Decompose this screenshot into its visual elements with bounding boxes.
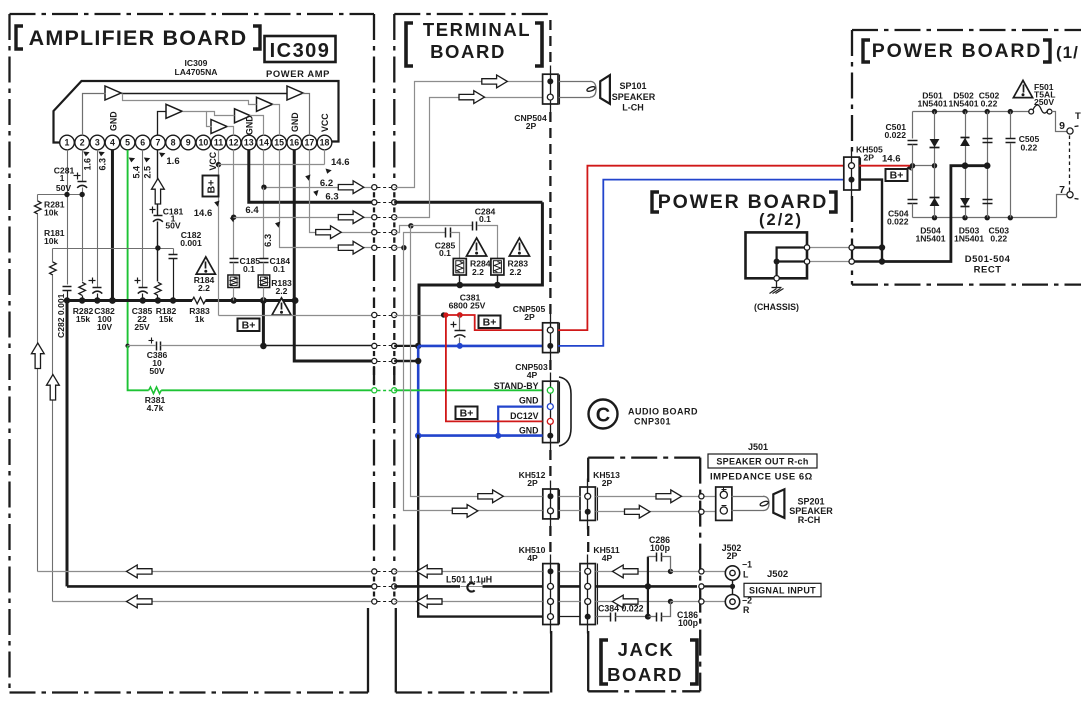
wire speaker R+ row (411, 226, 716, 499)
label 14.6 near B+ (194, 200, 220, 219)
svg-text:0.22: 0.22 (981, 99, 998, 109)
connector KH510 (519, 545, 560, 634)
op-amp A3 (211, 120, 227, 134)
pin 11 (211, 135, 226, 150)
svg-text:R-CH: R-CH (798, 515, 821, 525)
wire B+ middle stub (910, 163, 937, 168)
pin 7 (151, 135, 166, 150)
svg-text:(CHASSIS): (CHASSIS) (754, 302, 799, 312)
svg-text:J502: J502 (767, 569, 788, 580)
arrow row A terminal side left (417, 565, 443, 578)
svg-text:1.6: 1.6 (83, 158, 93, 171)
jack board border (588, 458, 700, 692)
svg-text:POWER AMP: POWER AMP (266, 68, 330, 79)
wire VCC row pin11 to pin18 (219, 164, 325, 166)
svg-text:GND: GND (109, 111, 119, 131)
svg-text:2.2: 2.2 (472, 267, 484, 277)
svg-text:GND: GND (244, 115, 254, 135)
resistor R383 (189, 297, 210, 324)
thick wire bus drop to C386 node (262, 301, 265, 346)
svg-text:VCC: VCC (208, 151, 218, 170)
wire red B+ CNP505 to KH505 (558, 166, 844, 330)
svg-text:JACK: JACK (618, 639, 675, 660)
bracket arc right of CNP503 (559, 377, 571, 446)
capacitor C503 (983, 166, 993, 218)
wire A6 out to pin17 (303, 94, 310, 136)
pin 16 (287, 135, 302, 150)
terminal 7 (1057, 184, 1074, 218)
svg-text:2P: 2P (727, 551, 738, 561)
pin 3 (90, 135, 105, 150)
svg-text:6.4: 6.4 (245, 205, 259, 216)
wire row8 GND thick (372, 358, 422, 364)
IC309 ref label (175, 58, 218, 77)
capacitor C184 (260, 188, 291, 276)
svg-text:14.6: 14.6 (882, 154, 901, 165)
SP101 label (612, 81, 656, 113)
svg-text:0.001: 0.001 (180, 238, 202, 248)
svg-text:14: 14 (259, 138, 269, 148)
wire row D / capacitor C384 (559, 604, 651, 622)
svg-text:(1/: (1/ (1056, 43, 1079, 62)
R184 label (194, 275, 215, 293)
svg-text:9: 9 (186, 138, 191, 148)
svg-text:8: 8 (171, 138, 176, 148)
svg-text:0.1: 0.1 (479, 214, 491, 224)
capacitor C502 (983, 112, 993, 166)
wire CNP504 to speaker (559, 81, 597, 97)
pin 4 (105, 135, 120, 150)
wire pin3 down / capacitor C382 (89, 150, 115, 333)
svg-text:4.7k: 4.7k (147, 403, 164, 413)
wire A4 out to pin14 (250, 116, 264, 136)
pin 5 (120, 135, 135, 150)
arrow speaker R- right (625, 505, 651, 518)
svg-text:DC12V: DC12V (510, 411, 538, 421)
svg-text:15k: 15k (159, 314, 174, 324)
svg-text:1: 1 (60, 173, 65, 183)
rectifier labels top (917, 91, 999, 109)
capacitor C186 (648, 602, 699, 629)
svg-text:6.2: 6.2 (320, 178, 333, 189)
svg-text:2: 2 (80, 138, 85, 148)
outline arrow up on pin7 line (152, 179, 165, 205)
capacitor C505 (1005, 112, 1040, 218)
pin 14 (257, 135, 272, 150)
speaker SP101 (586, 75, 610, 104)
wire pin12 down with 6.4 node (231, 150, 236, 259)
svg-text:14.6: 14.6 (331, 157, 350, 168)
svg-text:6.3: 6.3 (98, 158, 108, 171)
fusible resistor R184 (228, 275, 240, 301)
svg-text:SIGNAL INPUT: SIGNAL INPUT (749, 586, 816, 596)
svg-text:50V: 50V (56, 183, 72, 193)
wire blue bus row to CNP503 pin4 (415, 432, 543, 438)
svg-text:2.5: 2.5 (143, 166, 153, 179)
svg-text:2.2: 2.2 (276, 286, 288, 296)
svg-text:(2/2): (2/2) (759, 211, 803, 229)
svg-text:6.3: 6.3 (263, 234, 274, 247)
B+ boxed label power (886, 169, 908, 182)
svg-text:AUDIO BOARD: AUDIO BOARD (628, 407, 698, 417)
svg-text:LA4705NA: LA4705NA (175, 67, 218, 77)
pin 17 (302, 135, 317, 150)
wire pin11 VCC node (208, 150, 221, 171)
wire A2 out to A4 in (207, 112, 235, 116)
svg-text:15: 15 (274, 138, 284, 148)
warning triangle R284 (467, 238, 487, 256)
wire blue vertical (417, 346, 420, 436)
pin 2 (75, 135, 90, 150)
svg-text:10: 10 (198, 138, 208, 148)
svg-text:IC309: IC309 (270, 40, 331, 62)
fusible resistor R183 (258, 275, 270, 301)
svg-text:14.6: 14.6 (194, 208, 213, 219)
wire pin2 down / capacitor C281 (74, 150, 88, 282)
wire signal row C (53, 599, 726, 604)
svg-text:11: 11 (214, 138, 223, 148)
wire signal GND row B thick (67, 584, 732, 589)
arrow speaker R- left (452, 505, 478, 518)
warning triangle R283 (509, 238, 529, 256)
svg-text:STAND-BY: STAND-BY (494, 381, 539, 391)
outline arrow up on left wire (31, 343, 44, 369)
op-amp A5 (257, 97, 273, 111)
arrow row3 terminal side (459, 91, 485, 104)
svg-text:C: C (596, 405, 610, 427)
svg-text:CNP301: CNP301 (634, 417, 671, 427)
arrow row C terminal side left (417, 595, 443, 608)
wire pin6 down / capacitor C385 (132, 150, 153, 333)
pin 13 (242, 135, 257, 150)
B+ boxed label on bus (238, 319, 260, 332)
arrow speaker R+ right (656, 490, 682, 503)
jack board title (601, 639, 697, 685)
arrow speaker R+ left (478, 490, 504, 503)
svg-text:B+: B+ (460, 408, 474, 420)
wire left feedback L down to row A (37, 215, 39, 572)
warning triangle R183 (272, 298, 291, 315)
pin 10 (196, 135, 211, 150)
svg-text:2P: 2P (524, 312, 535, 322)
power board 1/2 title (863, 40, 1079, 62)
wire A3 out to pin12 (228, 127, 234, 136)
wire pin7 to A2 (158, 112, 167, 136)
wire pin16 GND thick down and right (294, 150, 374, 361)
svg-text:2P: 2P (526, 121, 537, 131)
warning triangle F501 (1013, 80, 1032, 97)
svg-text:6800 25V: 6800 25V (449, 301, 486, 311)
capacitor C282 (56, 287, 72, 339)
arrow row C amp side left (127, 595, 153, 608)
svg-text:1N5401: 1N5401 (917, 99, 947, 109)
thick GND loop terminal board (419, 202, 542, 346)
wire red B+ to CNP505 (444, 315, 543, 330)
audio board C mark (589, 400, 618, 429)
connector CNP503 (515, 362, 559, 452)
CNP503 pin name labels (494, 381, 539, 436)
B+ boxed label CNP503 (456, 407, 478, 420)
svg-text:1k: 1k (195, 314, 205, 324)
svg-text:J501: J501 (748, 442, 768, 452)
svg-text:18: 18 (320, 138, 330, 148)
transformer dashes (1070, 111, 1081, 200)
wire chassis row 2 (804, 259, 882, 264)
wire blue GND bus to CNP505 (418, 343, 542, 349)
svg-text:15k: 15k (76, 314, 91, 324)
svg-text:L-CH: L-CH (622, 103, 644, 113)
voltage labels pins 2,3,5,6,7 (83, 152, 180, 179)
power board 1/2 border (852, 30, 1081, 285)
svg-text:B+: B+ (242, 320, 256, 332)
svg-text:6.3: 6.3 (325, 192, 338, 203)
capacitor C185 (230, 256, 261, 276)
svg-text:BOARD: BOARD (607, 664, 683, 685)
svg-text:100p: 100p (678, 618, 699, 628)
chassis box (746, 232, 808, 278)
svg-text:5: 5 (125, 138, 130, 148)
svg-text:4P: 4P (602, 553, 613, 563)
svg-text:POWER BOARD: POWER BOARD (658, 191, 828, 213)
capacitor C381 (449, 293, 486, 346)
svg-text:7: 7 (155, 138, 160, 148)
svg-text:2P: 2P (864, 153, 875, 163)
svg-text:GND: GND (519, 396, 539, 406)
terminal 9 (1059, 120, 1073, 134)
svg-text:GND: GND (290, 112, 300, 132)
chassis inner wires (774, 248, 807, 281)
svg-text:SP201: SP201 (797, 497, 824, 507)
fuse F501 (1029, 105, 1052, 114)
wire row2 GND thick into terminal (372, 200, 543, 205)
svg-text:VCC: VCC (320, 113, 330, 132)
capacitor C284 (408, 207, 497, 259)
op-amp A1 (105, 86, 121, 100)
RCA jack J502 L (725, 560, 752, 581)
diode D502 (960, 112, 970, 166)
wire pin1 down (67, 150, 69, 285)
wire fuse to terminal 9 (1052, 112, 1067, 132)
wire left feedback R down to row C (52, 276, 54, 602)
SIGNAL INPUT boxed (744, 583, 821, 597)
wire blue GND CNP505 to KH505 (558, 180, 844, 346)
svg-text:2P: 2P (602, 478, 613, 488)
label 14.6 at pin18 (325, 157, 350, 174)
svg-text:2P: 2P (527, 478, 538, 488)
svg-text:13: 13 (244, 138, 254, 148)
AUDIO BOARD label (628, 407, 698, 427)
F501 label (1034, 82, 1055, 107)
arrow row4 amp side (316, 226, 342, 239)
svg-text:17: 17 (305, 138, 315, 148)
wire J501 to speaker (732, 496, 770, 510)
capacitor C504 (887, 166, 918, 227)
diode D501 (930, 112, 940, 166)
arrow row3 amp side (338, 211, 364, 224)
pin 15 (272, 135, 287, 150)
wire A5 out to pin15 (273, 105, 280, 136)
pin 12 (226, 135, 241, 150)
B+ boxed label rotated (203, 176, 219, 197)
14.6 label power (882, 154, 912, 172)
amplifier board title (16, 26, 260, 50)
C181 label (163, 207, 184, 231)
wire black GND vertical to KH510 pin4 (418, 435, 543, 617)
wire A1 out to A5 in (123, 94, 257, 105)
svg-text:R: R (743, 605, 750, 615)
wire KH505 pin2 down (859, 180, 885, 265)
wire pin13 GND thick to terminal (249, 150, 374, 203)
wire row5 to C285 node (372, 245, 407, 250)
jack ground link (730, 581, 735, 595)
svg-text:0.022: 0.022 (887, 217, 909, 227)
C281 label (54, 166, 75, 194)
svg-text:B+: B+ (206, 180, 218, 194)
border dashes between connector rows (374, 192, 394, 596)
svg-text:100p: 100p (650, 543, 671, 553)
arrow row1 amp side (338, 181, 364, 194)
svg-text:D501-504: D501-504 (965, 254, 1011, 265)
capacitor C285 (404, 228, 460, 259)
RCA jack J502 R (725, 595, 752, 616)
svg-text:C384 0.022: C384 0.022 (598, 604, 644, 614)
svg-text:6: 6 (140, 138, 145, 148)
chassis ground (770, 282, 784, 294)
svg-text:10V: 10V (97, 322, 113, 332)
svg-text:0.22: 0.22 (990, 234, 1007, 244)
connector KH512 (519, 470, 560, 528)
wire pin7 down / capacitor C181 (150, 150, 163, 282)
arrow row1 terminal side (482, 75, 508, 88)
wire pin14 down to row1 (264, 150, 375, 188)
wire pin5 green stand-by down (127, 150, 129, 346)
svg-text:10k: 10k (44, 208, 59, 218)
connector KH513 (580, 470, 620, 530)
wire signal row A (38, 569, 726, 574)
amplifier board border (10, 14, 375, 693)
svg-text:SPEAKER OUT R-ch: SPEAKER OUT R-ch (716, 457, 808, 467)
svg-text:TERMINAL: TERMINAL (423, 19, 531, 40)
svg-text:1N5401: 1N5401 (948, 99, 978, 109)
svg-text:0.22: 0.22 (1021, 143, 1038, 153)
svg-text:B+: B+ (890, 170, 904, 182)
svg-text:250V: 250V (1034, 97, 1054, 107)
pin 9 (181, 135, 196, 150)
wire blue CNP503 GND pin2 (498, 407, 542, 436)
fusible resistor R284 (453, 259, 490, 286)
wire row1 speaker L+ (372, 82, 543, 190)
svg-text:3: 3 (95, 138, 100, 148)
terminal J501 (716, 487, 732, 520)
thick GND path rectifier (882, 162, 991, 261)
svg-text:1.6: 1.6 (166, 156, 179, 167)
pin 6 (135, 135, 150, 150)
svg-text:RECT: RECT (974, 265, 1002, 276)
op-amp IC U IC309 outline (54, 81, 339, 143)
wire pin18 riser (324, 150, 326, 165)
speaker SP201 (760, 489, 785, 518)
op-amp A6 (287, 86, 303, 100)
wire A2 out to A3 in (183, 112, 212, 127)
wire R181 node to C182 (53, 245, 174, 250)
svg-text:L501 1.1µH: L501 1.1µH (446, 575, 492, 585)
capacitor C386 (128, 338, 264, 377)
diode D503 (960, 166, 970, 218)
arrow row A jack side left (613, 565, 639, 578)
svg-text:GND: GND (519, 425, 539, 435)
svg-text:4P: 4P (527, 370, 538, 380)
label 6.2 (305, 174, 334, 189)
bottom AC rail (913, 215, 1057, 220)
wire chassis row 1 (804, 245, 882, 250)
SPEAKER OUT R-ch boxed (708, 454, 817, 468)
terminal board title (406, 19, 542, 66)
svg-text:4P: 4P (527, 553, 538, 563)
label 6.4 (229, 205, 259, 223)
GND bus (64, 297, 299, 304)
diode D504 (930, 166, 940, 218)
resistor R181 (44, 228, 65, 275)
wire row3 speaker L- (234, 98, 543, 220)
thick wire bus to row B (66, 301, 69, 587)
capacitor C286 (645, 535, 671, 617)
wire pin2 to A1 (83, 94, 106, 136)
svg-text:2.2: 2.2 (510, 267, 522, 277)
pin 18 (317, 135, 332, 150)
power board 2/2 title (652, 191, 836, 229)
J502 2P label (722, 543, 742, 561)
capacitor C182 (169, 230, 202, 301)
connector CNP505 (513, 304, 560, 362)
svg-text:0.022: 0.022 (884, 130, 906, 140)
svg-text:1N5401: 1N5401 (954, 234, 984, 244)
op-amp A4 (235, 109, 251, 123)
fusible resistor R283 (491, 259, 528, 286)
svg-text:9: 9 (1059, 120, 1065, 132)
svg-text:16: 16 (289, 138, 299, 148)
op-amp A2 (166, 104, 182, 118)
label 6.3 row1 (313, 189, 339, 202)
arrow row A amp side left (127, 565, 153, 578)
warning triangle R184 (196, 257, 215, 274)
inductor L501 (446, 575, 492, 592)
svg-text:12: 12 (229, 138, 239, 148)
wire A1 out to A6 in (122, 93, 288, 95)
svg-text:AMPLIFIER BOARD: AMPLIFIER BOARD (29, 26, 248, 50)
connector KH505 (844, 145, 883, 200)
resistor R182 (155, 282, 177, 324)
svg-text:T: T (1075, 111, 1081, 122)
D501-504 RECT label (965, 254, 1011, 276)
pin 1 (60, 135, 75, 150)
outline arrow up on second left wire (47, 375, 60, 401)
svg-text:0.1: 0.1 (243, 264, 255, 274)
wire pin15 down to row5 (280, 150, 375, 248)
capacitor C501 (884, 112, 917, 166)
svg-text:1: 1 (65, 138, 70, 148)
wire VCC down to B+ row (218, 165, 220, 316)
svg-text:B+: B+ (483, 317, 497, 329)
wire C281 node (38, 192, 85, 197)
svg-text:4: 4 (110, 138, 115, 148)
R183 label (271, 278, 292, 296)
svg-text:50V: 50V (149, 366, 165, 376)
wire pin4 GND thick down (111, 150, 114, 301)
svg-text:10k: 10k (44, 236, 59, 246)
terminal board border (394, 14, 551, 693)
svg-text:25V: 25V (134, 322, 150, 332)
connector CNP504 (514, 66, 559, 132)
